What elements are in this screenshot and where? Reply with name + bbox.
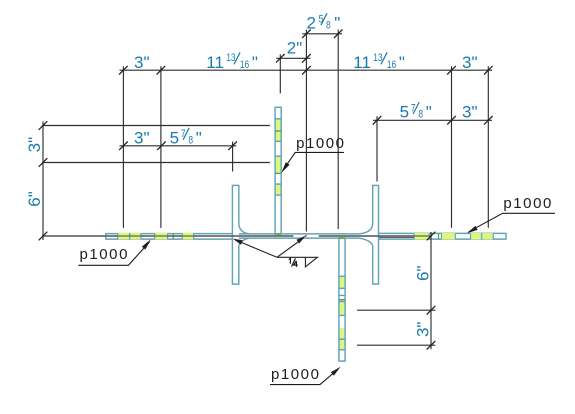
- svg-text:6": 6": [413, 265, 432, 281]
- svg-text:8: 8: [326, 20, 331, 32]
- svg-text:2": 2": [287, 39, 303, 58]
- svg-text:16: 16: [387, 59, 396, 71]
- svg-text:13: 13: [226, 52, 235, 64]
- svg-text:3": 3": [462, 53, 478, 72]
- svg-text:": ": [399, 53, 405, 72]
- svg-text:3": 3": [134, 128, 150, 147]
- svg-text:": ": [196, 128, 202, 147]
- svg-text:3": 3": [462, 103, 478, 122]
- svg-text:11: 11: [206, 53, 224, 72]
- svg-text:6": 6": [25, 191, 44, 207]
- svg-text:p1000: p1000: [80, 246, 129, 263]
- svg-text:11: 11: [353, 53, 371, 72]
- svg-text:5: 5: [400, 103, 409, 122]
- svg-text:": ": [426, 103, 432, 122]
- svg-text:5: 5: [319, 14, 324, 26]
- svg-text:3": 3": [134, 53, 150, 72]
- svg-text:p1000: p1000: [296, 135, 345, 152]
- svg-text:2: 2: [307, 14, 316, 33]
- svg-text:p1000: p1000: [271, 366, 320, 383]
- svg-text:3": 3": [413, 322, 432, 338]
- svg-text:": ": [334, 14, 340, 33]
- svg-text:5: 5: [170, 128, 179, 147]
- svg-text:3": 3": [25, 137, 44, 153]
- svg-text:8: 8: [418, 109, 423, 121]
- svg-text:p1000: p1000: [503, 195, 552, 212]
- svg-text:": ": [252, 53, 258, 72]
- svg-text:16: 16: [240, 59, 249, 71]
- svg-text:13: 13: [373, 52, 382, 64]
- svg-text:8: 8: [188, 134, 193, 146]
